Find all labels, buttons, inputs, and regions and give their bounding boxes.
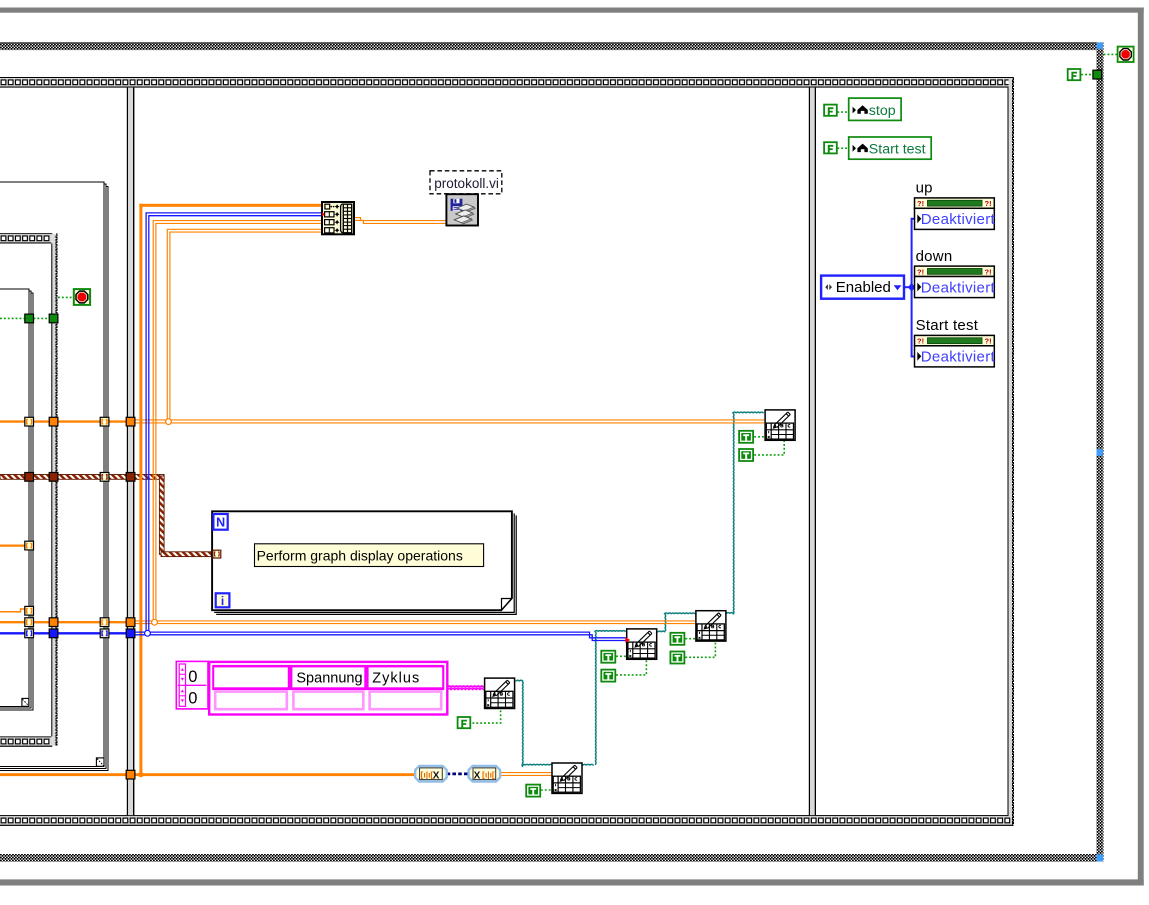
while loop bottom border [0,854,1104,862]
wire: orange 2D vertical from build node row4 [167,229,322,421]
selection handle mid-right [1097,449,1103,456]
boolean wire: F2 to Start test local [837,147,848,149]
tunnel hollow orange frameA y545 [25,541,34,550]
wire: orange row y622 left frame (1D) [0,621,126,623]
table constant 2x3 string array [209,662,447,715]
svg-text:X: X [433,770,440,781]
wire: blue row y633 right of divider (2D) with jog into property node A [135,632,626,640]
tunnel hollow orange frameC y622 [100,618,109,627]
flat sequence frame divider 1 [127,88,135,816]
flat sequence top border [0,77,1014,88]
for loop i terminal [216,593,230,608]
tunnel hollow blue frameA y633 [25,629,34,638]
boolean wire: to stop button [58,296,74,298]
junction circle orange y421 [166,419,172,425]
table write node C (right of table constant) [485,678,515,708]
conversion node number-to-string 1 [415,766,447,782]
svg-text:down: down [916,248,953,265]
svg-text:Perform graph display operatio: Perform graph display operations [257,547,463,563]
svg-text:0: 0 [188,668,197,686]
tunnel hollow orange frameA y421 [25,417,34,426]
tunnel filled green seq-edge y318 [49,314,58,323]
svg-text:Deaktiviert: Deaktiviert [921,349,996,366]
svg-text:Start test: Start test [869,141,926,157]
wire: blue 2D vertical from build node row2 [146,213,322,633]
string 2D wire: magenta wavy table to node C [448,686,484,688]
tunnel filled blue seq-edge y633 [49,629,58,638]
stacked frame A dog-ear [22,698,29,706]
svg-text:Deaktiviert: Deaktiviert [921,211,996,228]
boolean constant F2 [824,142,837,153]
stacked frame A back sheet [0,293,33,710]
svg-text:0: 0 [188,690,197,708]
boolean wire: F3 to while loop tunnel [1081,74,1093,76]
tunnel filled brown frameA y477 [25,473,34,482]
for loop dog-ear [502,599,512,610]
svg-text:Zyklus: Zyklus [372,671,420,687]
wire: orange stub row y611 with jog [0,609,25,612]
property node up Disabled=Deaktiviert [915,180,996,230]
for loop back sheets [214,513,514,612]
svg-text:[ı|ı[: [ı|ı[ [482,770,495,780]
svg-text:Start test: Start test [916,317,979,334]
wire: conversion node 2 output (2D) to table node D [500,773,551,776]
reference wire: property node B to top property node (teal wavy) [726,613,733,614]
boolean constant T (node A 2) [601,670,615,682]
boolean constant T (node B 2) [670,652,684,664]
wire: orange row y421 right of divider (2D two-line) to top property node [135,420,764,423]
tunnel filled orange divider1 y774 [126,770,135,779]
svg-text:?!: ?! [917,267,924,276]
table write node D (bottom) [552,763,582,793]
tunnel filled green frameA y318 [25,314,34,323]
wire: orange 2D vertical from build node row3 [153,221,322,622]
while loop top border [0,43,1104,51]
table write node top (near y421 wire) [765,410,795,440]
boolean constant F3 [1068,69,1081,80]
variant wire: navy dashed between conversion nodes [447,773,469,776]
subVI protokoll.vi icon [446,194,478,225]
inner sequence right border [51,234,57,745]
boolean wire: T pair to property node B [685,638,695,640]
boolean constant F4 [458,717,471,728]
boolean constant T (node A 1) [601,651,615,663]
tunnel filled green on while loop right border [1093,70,1102,79]
boolean constant T (node B 1) [670,633,684,645]
coercion dot red at property node A input [625,637,630,642]
svg-text:?!: ?! [985,199,992,208]
reference wire: property node A to property node B (teal wavy) [658,631,665,632]
wire: orange 1D array horizontal into build node row1 [139,204,322,207]
tunnel hollow orange frameA y611 [25,606,34,615]
wire: orange bottom bus y774 to conversion node [0,773,126,776]
flat sequence bottom border [0,815,1014,826]
flat sequence right border [1008,78,1014,825]
boolean wire: loop border to stop sign button [1104,53,1118,55]
svg-text:protokoll.vi: protokoll.vi [434,176,499,191]
table write node B [696,611,726,641]
tunnel filled orange seq-edge y421 [49,417,58,426]
inner sequence bottom border [0,736,52,746]
property node Start test Disabled=Deaktiviert [915,317,996,367]
wire: orange stub row y545 [0,544,25,546]
boolean wire: F4 to table node C [472,710,500,723]
tunnel filled orange seq-edge y622 [49,618,58,627]
tunnel filled orange divider1 y421 [126,417,135,426]
boolean wire: row y318 left frame [0,317,49,319]
stacked frame C middle sheet [0,184,106,768]
stop button terminal (left frame) [74,289,90,305]
svg-text:stop: stop [869,103,896,119]
stacked frame A front sheet [0,289,29,706]
svg-text:?!: ?! [917,337,924,346]
svg-text:X: X [474,770,481,781]
tunnel hollow orange frameC y421 [100,417,109,426]
property node down Disabled=Deaktiviert [915,248,996,298]
enum constant Enabled [821,276,904,299]
window right border bar [1138,8,1144,886]
local variable Start test [849,137,932,159]
for loop comment label [255,544,484,567]
svg-text:[ı|ı[: [ı|ı[ [421,770,434,780]
stacked frame A middle sheet [0,291,31,708]
table constant index box [176,661,208,709]
label protokoll.vi [430,171,502,194]
svg-text:Spannung: Spannung [296,671,362,687]
stacked frame C front sheet [0,182,104,766]
tunnel on for-loop left edge (cluster) [213,550,221,558]
svg-text:Deaktiviert: Deaktiviert [921,279,996,296]
local variable stop [849,98,901,120]
svg-text:?!: ?! [917,199,924,208]
tunnel filled brown divider1 y477 [126,473,135,482]
tunnel filled blue divider1 y633 [126,629,135,638]
build table node [322,202,354,234]
wire: build node output (2D) to protokoll subVI [354,218,446,224]
svg-text:?!: ?! [985,267,992,276]
for loop N terminal [213,514,227,530]
svg-text:up: up [916,180,933,197]
svg-text:?!: ?! [985,337,992,346]
junction circle blue y633 [145,630,151,636]
inner sequence top border [0,233,52,243]
wire: orange row y421 left frame (1D) [0,420,126,422]
svg-text:i: i [221,594,224,608]
boolean constant F1 [824,105,837,116]
junction circle orange y622 [152,619,158,625]
enum wire to property nodes [904,219,915,357]
svg-text:N: N [216,516,225,530]
reference wire: table constant icon C to property node A (teal wavy) [516,680,523,681]
for loop frame [212,511,512,610]
boolean constant T (top icon 2) [739,449,753,461]
junction dot orange y774 [138,772,143,777]
boolean wire: T pair to property node A [616,655,626,657]
stacked frame C dog-ear [96,758,104,766]
while loop right border [1097,43,1104,862]
table write node A [627,629,657,659]
stop sign button (top right) [1118,47,1134,62]
flat sequence frame divider 2 [809,88,816,816]
window top border bar [0,8,1144,13]
boolean wire: T to table node D [541,789,552,791]
boolean wire: T to top property node [754,436,764,438]
selection handle top-right [1097,43,1103,49]
svg-text:Enabled: Enabled [836,279,891,296]
tunnel hollow orange frameA y622 [25,618,34,627]
boolean wire: F1 to stop local [837,111,848,113]
wire: cluster-array candy wire horizontal left frame [0,475,213,557]
stacked frame C back sheet [0,186,108,770]
tunnel filled orange divider1 y622 [126,618,135,627]
wire: orange row y622 right of divider (2D) to property node B [135,621,695,624]
conversion node number-to-string 2 [469,766,501,782]
boolean constant T (node D) [526,785,540,797]
wire: orange 1D array vertical down to bottom bus [139,204,142,776]
boolean constant T (top icon 1) [739,431,753,443]
tunnel hollow blue frameC y633 [100,629,109,638]
tunnel hollow brown frameC y477 [100,473,109,482]
selection handle bottom-right [1097,854,1103,861]
tunnel filled brown seq-edge y477 [49,473,58,482]
wire: blue row y633 left frame (1D) [0,632,126,634]
window bottom border bar [0,879,1144,885]
